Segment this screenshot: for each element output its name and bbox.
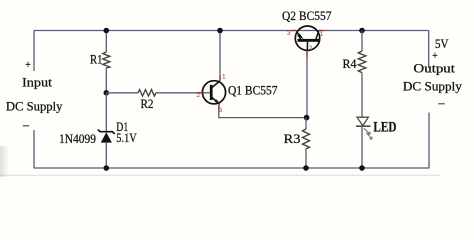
svg-text:5.1V: 5.1V [116,130,137,145]
wire left rail upper [33,30,35,71]
transistor Q2 BC557 [282,9,332,52]
wire R2 row right to Q1 base [156,92,210,94]
svg-text:LED: LED [373,120,396,136]
svg-text:1: 1 [222,74,226,81]
svg-text:5V: 5V [435,37,449,51]
wire top rail [34,30,429,32]
wire R3 to bottom rail [305,149,307,168]
svg-text:3: 3 [287,30,291,37]
wire Q2 base pin stub (red) [306,51,308,57]
scan artifact left edge smudge [0,146,9,177]
resistor R1 [90,52,110,68]
node bottom rail / LED junction [359,165,365,171]
label Input DC Supply [6,75,63,113]
resistor R2 [138,90,156,111]
svg-text:R3: R3 [284,131,301,146]
svg-text:R4: R4 [343,57,358,71]
wire D1 column [105,93,107,132]
wire left rail lower [33,130,35,168]
node bottom rail / R3 junction [303,165,309,171]
wire Q1 emitter down and right to R3 node [219,104,307,118]
svg-text:Input: Input [22,75,53,89]
svg-text:2: 2 [309,45,313,52]
wire R4 column top [361,31,363,52]
wire LED to bottom rail [361,126,363,168]
wire D1 to bottom rail [105,143,107,168]
wire R1 to node [105,68,107,93]
wire R4 to LED [361,73,363,117]
svg-text:Q2 BC557: Q2 BC557 [282,9,332,23]
svg-text:1N4099: 1N4099 [59,131,96,146]
svg-text:Output: Output [413,62,455,76]
svg-text:+: + [25,60,31,71]
node top rail / R4 junction [359,28,365,34]
svg-text:1: 1 [320,31,324,38]
node Q1/Q2/R3 junction [304,115,310,121]
svg-text:R2: R2 [141,97,154,111]
svg-text:DC Supply: DC Supply [6,100,63,114]
wire Q1 base pin stub (red) [196,92,204,94]
wire R2 row left [106,92,138,94]
wire node to R3 [305,118,307,129]
wire bottom rail [34,167,429,169]
svg-text:–: – [22,118,30,132]
wire Q1 collector to top rail [219,31,221,82]
wire right rail lower [428,113,430,169]
diode D1 zener 1N4099 [59,119,137,146]
label Output DC Supply [403,62,463,94]
wire right rail upper [428,31,430,69]
transistor Q1 BC557 [197,74,278,115]
wire Q2 emitter pin stub (red) [291,30,296,32]
svg-text:Q1 BC557: Q1 BC557 [228,84,278,98]
wire Q2 base down to R3 node [306,50,308,117]
node R1/R2/D1 junction [104,90,110,96]
node bottom rail / D1 junction [104,165,110,171]
node top rail / Q1 junction [217,28,223,34]
wire Q1 collector pin stub (red) [219,76,221,81]
svg-text:R1: R1 [90,53,103,67]
LED [356,117,397,139]
svg-text:+: + [432,51,438,62]
wire R1 column top [105,31,107,53]
scan artifact bottom edge line [0,174,440,176]
wire Q2 collector pin stub (red) [319,30,324,32]
svg-text:–: – [438,96,446,110]
node top rail / R1 junction [104,28,110,34]
wire Q1 emitter pin stub (red) [218,105,220,111]
svg-text:DC Supply: DC Supply [403,80,463,94]
resistor R4 [343,51,366,73]
resistor R3 [284,129,310,149]
